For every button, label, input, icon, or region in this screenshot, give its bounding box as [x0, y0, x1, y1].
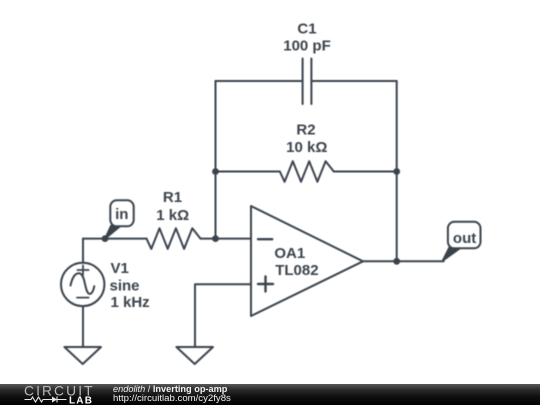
logo resistor-diode art: [25, 397, 67, 403]
wire left vertical: [215, 81, 217, 239]
resistor R1: [147, 228, 201, 249]
svg-text:sine: sine: [110, 277, 140, 294]
svg-text:out: out: [453, 230, 476, 247]
svg-text:10 kΩ: 10 kΩ: [286, 139, 327, 156]
svg-text:OA1: OA1: [274, 245, 305, 262]
wire in node to R1: [83, 238, 147, 240]
junction (right vertical / R2): [393, 168, 400, 175]
wire R2 left lead: [216, 171, 280, 173]
junction (left vertical / R2): [212, 168, 219, 175]
wire top left segment to C1: [216, 80, 302, 82]
svg-text:in: in: [115, 206, 128, 223]
svg-text:V1: V1: [111, 260, 129, 277]
wire op-amp non-inverting input: [195, 284, 251, 347]
wire R2 right lead: [334, 171, 397, 173]
wire right vertical: [396, 81, 398, 261]
wire R1 to op-amp inverting input: [201, 238, 252, 240]
svg-text:LAB: LAB: [69, 395, 93, 405]
node in flag: [104, 200, 133, 240]
footer credit text: [113, 385, 231, 403]
wire V1 to ground: [82, 306, 84, 347]
wire C1 to top right: [312, 80, 396, 82]
svg-text:TL082: TL082: [275, 262, 318, 279]
ground (below V1): [64, 347, 101, 364]
junction (in node): [102, 235, 109, 242]
svg-text:1 kΩ: 1 kΩ: [156, 207, 189, 224]
wire op-amp output: [363, 260, 444, 262]
junction (output node): [393, 258, 400, 265]
svg-text:C1: C1: [297, 21, 316, 38]
ground (op-amp + input): [176, 347, 213, 364]
wire V1 branch down: [82, 239, 84, 263]
node out flag: [442, 222, 481, 262]
capacitor C1: [303, 59, 312, 105]
op-amp OA1: [251, 206, 363, 316]
svg-text:100 pF: 100 pF: [283, 38, 331, 55]
footer bar: [0, 384, 540, 405]
svg-text:1 kHz: 1 kHz: [111, 294, 150, 311]
svg-text:R1: R1: [163, 189, 182, 206]
resistor R2: [280, 161, 334, 182]
junction (left vertical / R1): [212, 235, 219, 242]
voltage source V1: [61, 263, 104, 306]
svg-text:R2: R2: [296, 121, 315, 138]
